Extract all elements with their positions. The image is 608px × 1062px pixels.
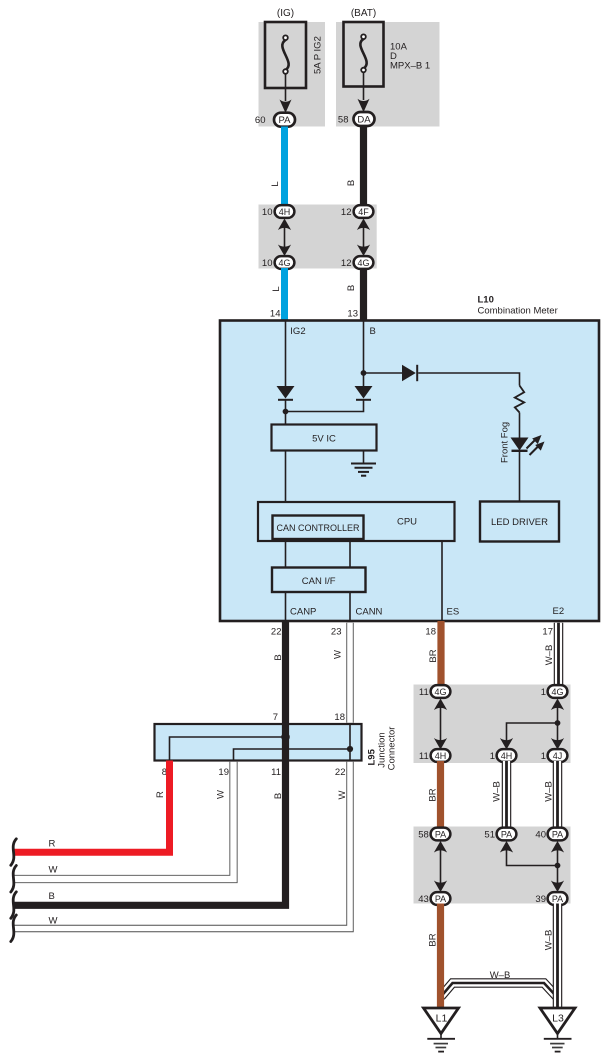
CPU box <box>258 502 455 541</box>
inter-connector arrows left 4H/4G <box>278 219 291 257</box>
svg-text:(IG): (IG) <box>277 8 294 19</box>
svg-text:W: W <box>337 790 348 799</box>
svg-text:W–B: W–B <box>544 781 555 802</box>
svg-text:7: 7 <box>273 712 278 723</box>
svg-text:11: 11 <box>419 751 429 762</box>
svg-text:L: L <box>270 181 281 186</box>
svg-text:E2: E2 <box>553 606 565 617</box>
wire BR ES meter to 4G <box>437 621 444 692</box>
svg-text:B: B <box>273 793 284 799</box>
junction connector L95 box <box>155 724 362 761</box>
connector PA pin 43 <box>431 892 451 905</box>
svg-text:CANN: CANN <box>356 607 383 618</box>
node on B line <box>361 370 367 376</box>
arrows 4G to 4H left <box>434 699 447 750</box>
svg-text:4F: 4F <box>358 207 369 217</box>
svg-text:W: W <box>49 865 58 876</box>
CAN I/F box <box>272 568 366 593</box>
internal wire B down <box>363 321 365 387</box>
svg-text:1: 1 <box>541 751 546 762</box>
wire B pin11 to left <box>13 761 286 906</box>
connector PA pin 60 <box>274 113 295 127</box>
wire CAN controller to CAN I/F right <box>349 539 351 568</box>
svg-text:Connector: Connector <box>387 727 398 771</box>
wire W CANN meter to junction L95 <box>346 623 353 723</box>
svg-text:B: B <box>346 285 357 291</box>
svg-text:12: 12 <box>341 207 352 218</box>
wire BR 4H to PA58 <box>437 761 444 834</box>
arrow into DA <box>358 99 370 113</box>
svg-text:L3: L3 <box>552 1013 564 1025</box>
svg-text:W–B: W–B <box>544 930 555 951</box>
svg-text:17: 17 <box>542 627 553 638</box>
svg-text:W–B: W–B <box>544 645 555 666</box>
arrows PA51 PA40 PA39 group <box>500 841 564 892</box>
svg-text:10: 10 <box>262 207 273 218</box>
wire B (black) 4G to meter pin 13 <box>360 268 367 321</box>
inter-connector arrows right 4F/4G <box>357 219 370 257</box>
wire W pin22 to left <box>13 762 350 929</box>
wire D2 out to junction <box>286 400 364 412</box>
svg-text:MPX–B 1: MPX–B 1 <box>390 61 430 72</box>
svg-text:11: 11 <box>271 767 281 778</box>
svg-text:B: B <box>273 654 284 660</box>
wire W-B 4J to PA40 <box>553 761 563 834</box>
connector 4G pin 12 <box>354 256 374 269</box>
wire 5V IC to CPU <box>285 451 287 503</box>
connector DA pin 58 <box>354 112 375 126</box>
svg-text:LED DRIVER: LED DRIVER <box>491 517 548 528</box>
internal W trace through junction <box>349 724 351 761</box>
svg-text:19: 19 <box>218 767 229 778</box>
wire fuse to connector DA <box>363 72 365 100</box>
diode D2 <box>355 386 373 400</box>
connector area shading top <box>259 205 377 269</box>
LED Front Fog <box>511 435 545 455</box>
diode D3 <box>402 365 417 381</box>
connector area shading low-right <box>414 827 571 904</box>
svg-text:B: B <box>370 326 376 337</box>
node at 5V IC input <box>283 409 289 415</box>
svg-text:W: W <box>333 650 344 659</box>
resistor R1 <box>515 386 524 413</box>
svg-text:W: W <box>216 790 227 799</box>
svg-text:4H: 4H <box>435 751 447 761</box>
svg-text:(BAT): (BAT) <box>351 8 376 19</box>
svg-text:18: 18 <box>425 627 436 638</box>
wire W-B bridge L1 to L3 <box>441 983 557 997</box>
svg-text:W: W <box>49 916 58 927</box>
svg-text:PA: PA <box>552 829 563 839</box>
svg-text:40: 40 <box>535 830 546 841</box>
svg-text:PA: PA <box>552 894 563 904</box>
connector 4H pin 10 <box>275 205 295 218</box>
svg-text:1: 1 <box>541 687 546 698</box>
svg-text:BR: BR <box>428 788 439 801</box>
break squiggle W2 <box>11 915 16 942</box>
break squiggle W1 <box>11 866 16 893</box>
wire B CANP meter to junction L95 <box>282 621 289 724</box>
svg-text:B: B <box>49 891 55 902</box>
fuse F1 element <box>282 35 288 73</box>
svg-text:5A P IG2: 5A P IG2 <box>313 36 324 74</box>
fuse area shading left <box>259 22 326 127</box>
wire CAN I/F to CANN pin <box>349 592 351 621</box>
svg-text:22: 22 <box>271 627 282 638</box>
svg-text:4H: 4H <box>279 207 291 217</box>
internal trace to pin 8 <box>170 737 286 761</box>
svg-text:BR: BR <box>428 649 439 662</box>
svg-text:B: B <box>346 180 357 186</box>
svg-text:22: 22 <box>335 767 346 778</box>
svg-text:10: 10 <box>262 258 273 269</box>
wire fuse to connector PA <box>285 74 287 102</box>
fuse F2 element <box>360 34 366 72</box>
svg-text:4J: 4J <box>553 751 563 761</box>
wire D1 out to junction <box>285 400 287 425</box>
wire B (black) DA to 4F <box>360 126 367 206</box>
svg-text:PA: PA <box>435 829 446 839</box>
wire resistor to LED <box>519 413 521 438</box>
connector 4G pin 1 <box>548 685 568 698</box>
svg-text:4G: 4G <box>434 687 446 697</box>
svg-text:11: 11 <box>419 687 429 698</box>
svg-text:CAN CONTROLLER: CAN CONTROLLER <box>276 523 360 533</box>
svg-text:12: 12 <box>341 258 352 269</box>
svg-text:BR: BR <box>428 933 439 946</box>
internal wire IG2 down <box>285 321 287 387</box>
svg-text:58: 58 <box>418 830 429 841</box>
wire B through junction <box>282 724 289 761</box>
svg-text:1: 1 <box>490 751 495 762</box>
svg-text:R: R <box>155 791 166 798</box>
wire LED to LED DRIVER <box>519 451 521 502</box>
5V IC box U1 <box>272 425 377 451</box>
combination meter box L10 <box>220 321 599 622</box>
connector PA pin 51 <box>497 828 517 841</box>
svg-text:CANP: CANP <box>290 607 316 618</box>
fuse F2 (BAT) box <box>344 22 384 87</box>
ground L1 <box>424 1008 459 1052</box>
svg-text:CPU: CPU <box>397 517 417 528</box>
arrows PA58 to PA43 <box>434 841 447 892</box>
connector 4J pin 1 <box>548 749 568 762</box>
connector 4G pin 10 <box>275 256 295 269</box>
wire W-B 4H to PA51 <box>502 761 512 834</box>
LED DRIVER box <box>480 502 559 542</box>
svg-text:5V IC: 5V IC <box>312 434 336 445</box>
wire BR PA43 to ground L1 <box>437 904 444 1010</box>
diode D1 <box>277 386 295 400</box>
arrows 4G right group <box>500 699 564 750</box>
svg-text:W–B: W–B <box>490 970 511 981</box>
svg-text:DA: DA <box>357 115 371 126</box>
svg-text:60: 60 <box>255 115 266 126</box>
wire CAN controller to CAN I/F left <box>285 539 287 568</box>
fuse area shading right <box>336 22 440 127</box>
internal trace to pin 19 <box>234 749 351 761</box>
connector 4H pin 1 <box>497 749 517 762</box>
svg-text:IG2: IG2 <box>290 326 305 337</box>
svg-text:43: 43 <box>418 894 429 905</box>
wire D3 to resistor <box>418 373 519 386</box>
wire CAN I/F to CANP pin <box>285 592 287 621</box>
break squiggle B <box>11 892 16 919</box>
svg-text:4G: 4G <box>551 687 563 697</box>
svg-text:PA: PA <box>435 894 446 904</box>
svg-text:Combination Meter: Combination Meter <box>478 306 558 317</box>
wire R junction to left <box>13 761 170 853</box>
svg-text:23: 23 <box>331 627 342 638</box>
wire L (blue) PA to 4H <box>281 127 288 206</box>
svg-text:4G: 4G <box>278 258 290 268</box>
CAN CONTROLLER box <box>273 516 364 540</box>
wire W pin19 to left <box>13 762 234 879</box>
svg-text:4G: 4G <box>357 258 369 268</box>
svg-text:W–B: W–B <box>492 781 503 802</box>
connector 4H pin 11 <box>431 749 451 762</box>
svg-text:CAN I/F: CAN I/F <box>302 576 336 587</box>
svg-text:58: 58 <box>338 115 349 126</box>
arrow into PA <box>280 100 292 114</box>
svg-text:PA: PA <box>279 115 292 126</box>
svg-text:L1: L1 <box>436 1013 448 1025</box>
connector PA pin 58 <box>431 828 451 841</box>
svg-text:39: 39 <box>535 894 546 905</box>
connector 4F pin 12 <box>354 205 374 218</box>
break squiggle R <box>11 839 16 866</box>
svg-text:L: L <box>271 286 282 291</box>
wire W-B PA39 to ground L3 <box>553 904 563 1010</box>
node on W trace <box>347 746 353 752</box>
value label 10A D MPX-B 1 <box>390 42 430 72</box>
svg-text:Front Fog: Front Fog <box>500 422 511 463</box>
wire W-B E2 meter to 4G <box>554 623 564 691</box>
wire L (blue) 4G to meter pin 14 <box>281 268 288 321</box>
node on B trace <box>281 733 290 742</box>
svg-text:ES: ES <box>447 607 460 618</box>
svg-text:18: 18 <box>334 712 345 723</box>
fuse F1 (IG) box <box>265 22 306 88</box>
svg-text:4H: 4H <box>501 751 513 761</box>
connector 4G pin 11 <box>431 685 451 698</box>
connector area shading mid-right <box>414 685 571 764</box>
svg-text:PA: PA <box>501 829 512 839</box>
ground internal <box>351 451 376 476</box>
svg-text:13: 13 <box>347 309 358 320</box>
svg-text:51: 51 <box>484 830 495 841</box>
wire branch to D3 <box>364 372 403 374</box>
svg-text:14: 14 <box>270 309 281 320</box>
wire CPU to ES pin <box>441 541 443 621</box>
svg-text:L10: L10 <box>478 295 494 306</box>
connector PA pin 40 <box>548 828 568 841</box>
connector PA pin 39 <box>548 892 568 905</box>
ground L3 <box>540 1008 575 1052</box>
svg-text:R: R <box>49 839 56 850</box>
